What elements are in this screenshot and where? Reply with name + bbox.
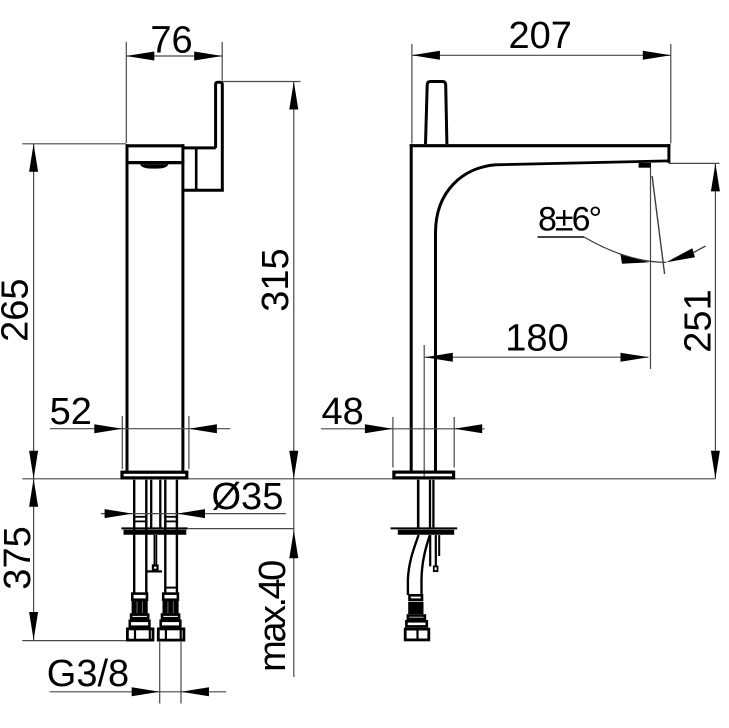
dimension max.40: line and arrow <box>293 479 295 677</box>
spout underside sloping line (side view) <box>496 161 669 165</box>
svg-text:Ø35: Ø35 <box>212 476 284 518</box>
hose 2 fitting: hex nut <box>158 629 184 640</box>
hose 2 fitting: step <box>162 615 179 619</box>
dimension 375: extension line bottom <box>22 640 126 642</box>
svg-text:251: 251 <box>678 289 720 352</box>
water stream reference line (side view) <box>650 168 652 369</box>
svg-text:8±6°: 8±6° <box>538 201 600 239</box>
hose 2 fitting: braid (black) <box>163 601 179 613</box>
dimension 48: extension lines <box>392 417 394 468</box>
hidden hose edge (side view) <box>438 535 440 556</box>
faucet body outline (front view) <box>126 144 129 471</box>
dimension Ø35: line and arrows <box>101 513 286 515</box>
slanted stream angle line <box>652 176 665 274</box>
dimension 265: line and arrows <box>33 144 35 479</box>
dimension 76: line and arrows <box>126 55 222 57</box>
hose shoulders (front view) <box>133 516 148 518</box>
body leg inner edge (side view) <box>434 232 437 471</box>
threaded rod (side view) <box>429 535 431 566</box>
dimension 207: line and arrows <box>412 54 671 56</box>
angle annotation: arrowhead at vertical reference <box>621 255 650 264</box>
hose 1 fitting: flange <box>130 621 150 627</box>
dimension 251: extension line top <box>669 162 720 164</box>
base plate (side view) <box>394 472 454 478</box>
svg-text:375: 375 <box>0 526 39 589</box>
hose 1 fitting: braid (black) <box>132 601 148 613</box>
dimension 48: line and arrows <box>321 428 485 430</box>
hose 1 fitting: step <box>131 615 148 619</box>
dimension G3/8: line and arrows <box>50 691 226 693</box>
body leg outer edge (side view) <box>410 144 413 471</box>
dimension 76: extension lines <box>125 42 127 143</box>
escutcheon cover plate (side view) <box>391 527 458 529</box>
handle lever (front view) <box>216 82 223 190</box>
dimension 265: extension line top <box>22 143 126 145</box>
dimension 207: extension lines <box>411 44 413 144</box>
center line of leg (side view) <box>423 345 425 478</box>
threaded stud below escutcheon (front view) <box>153 535 155 565</box>
svg-text:max.40: max.40 <box>252 561 294 672</box>
supply hose 2 tube (front view) <box>164 480 166 593</box>
spout top line (side view) <box>410 144 671 147</box>
flexible hose curving (side view) <box>408 535 419 595</box>
threaded mounting rod (front view) <box>150 480 152 528</box>
inner curve of spout (side view) <box>436 165 496 233</box>
angle annotation: leader arc <box>584 237 666 262</box>
svg-text:52: 52 <box>50 391 92 433</box>
handle stub (side view) <box>426 82 447 145</box>
svg-text:315: 315 <box>255 248 297 311</box>
handle base divider (front view) <box>195 148 198 190</box>
svg-text:265: 265 <box>0 278 37 341</box>
angle annotation: arrowhead at stream line with tail <box>666 248 695 262</box>
svg-text:180: 180 <box>505 318 568 360</box>
stud break symbol (front view) <box>153 566 158 570</box>
hose fitting (side view): braid <box>408 602 423 615</box>
hose fitting (side view): hex nut <box>405 629 429 640</box>
hose fitting (side view): flange <box>406 621 426 626</box>
svg-text:G3/8: G3/8 <box>47 653 129 695</box>
base plate (front view) <box>122 472 187 478</box>
escutcheon cover plate (front view) <box>121 527 187 529</box>
aerator dome (black, front view) <box>140 164 169 168</box>
spout lower edge line (front view) <box>126 161 185 164</box>
dimension 315: extension line top <box>222 81 300 83</box>
svg-text:207: 207 <box>508 15 571 57</box>
hose 1 fitting: collar <box>132 594 147 600</box>
svg-text:76: 76 <box>150 20 192 62</box>
hose fitting (side view): collar <box>410 595 423 599</box>
dimension 180: line and arrows <box>425 356 649 358</box>
dimension 52: extension lines <box>121 416 123 469</box>
hose 2 fitting: flange <box>161 621 181 627</box>
dimension 251: line and arrows <box>714 163 716 478</box>
dimension 375: line and arrows <box>33 479 35 640</box>
supply hose 1 tube (front view) <box>133 480 135 593</box>
dimension 315: line and arrows <box>293 82 295 479</box>
dimension G3/8: extension lines <box>159 642 161 704</box>
deck reference line (mounting surface, spans both views) <box>22 478 715 480</box>
aerator outlet (black, side view) <box>639 163 651 168</box>
handle step line (front view) <box>184 146 216 149</box>
spout right end edge (side view) <box>667 144 670 163</box>
handle base bottom (front view) <box>184 189 224 192</box>
angle annotation: underline <box>538 236 585 238</box>
svg-text:48: 48 <box>321 391 363 433</box>
dimension 52: line and arrows <box>50 428 230 430</box>
hose fitting (side view): step <box>408 616 425 619</box>
hose 2 fitting: collar <box>163 594 178 600</box>
dimension max.40: extension line <box>188 528 295 530</box>
supply pipes below plate (side view) <box>417 480 420 528</box>
hose 1 fitting: hex nut <box>127 629 153 640</box>
